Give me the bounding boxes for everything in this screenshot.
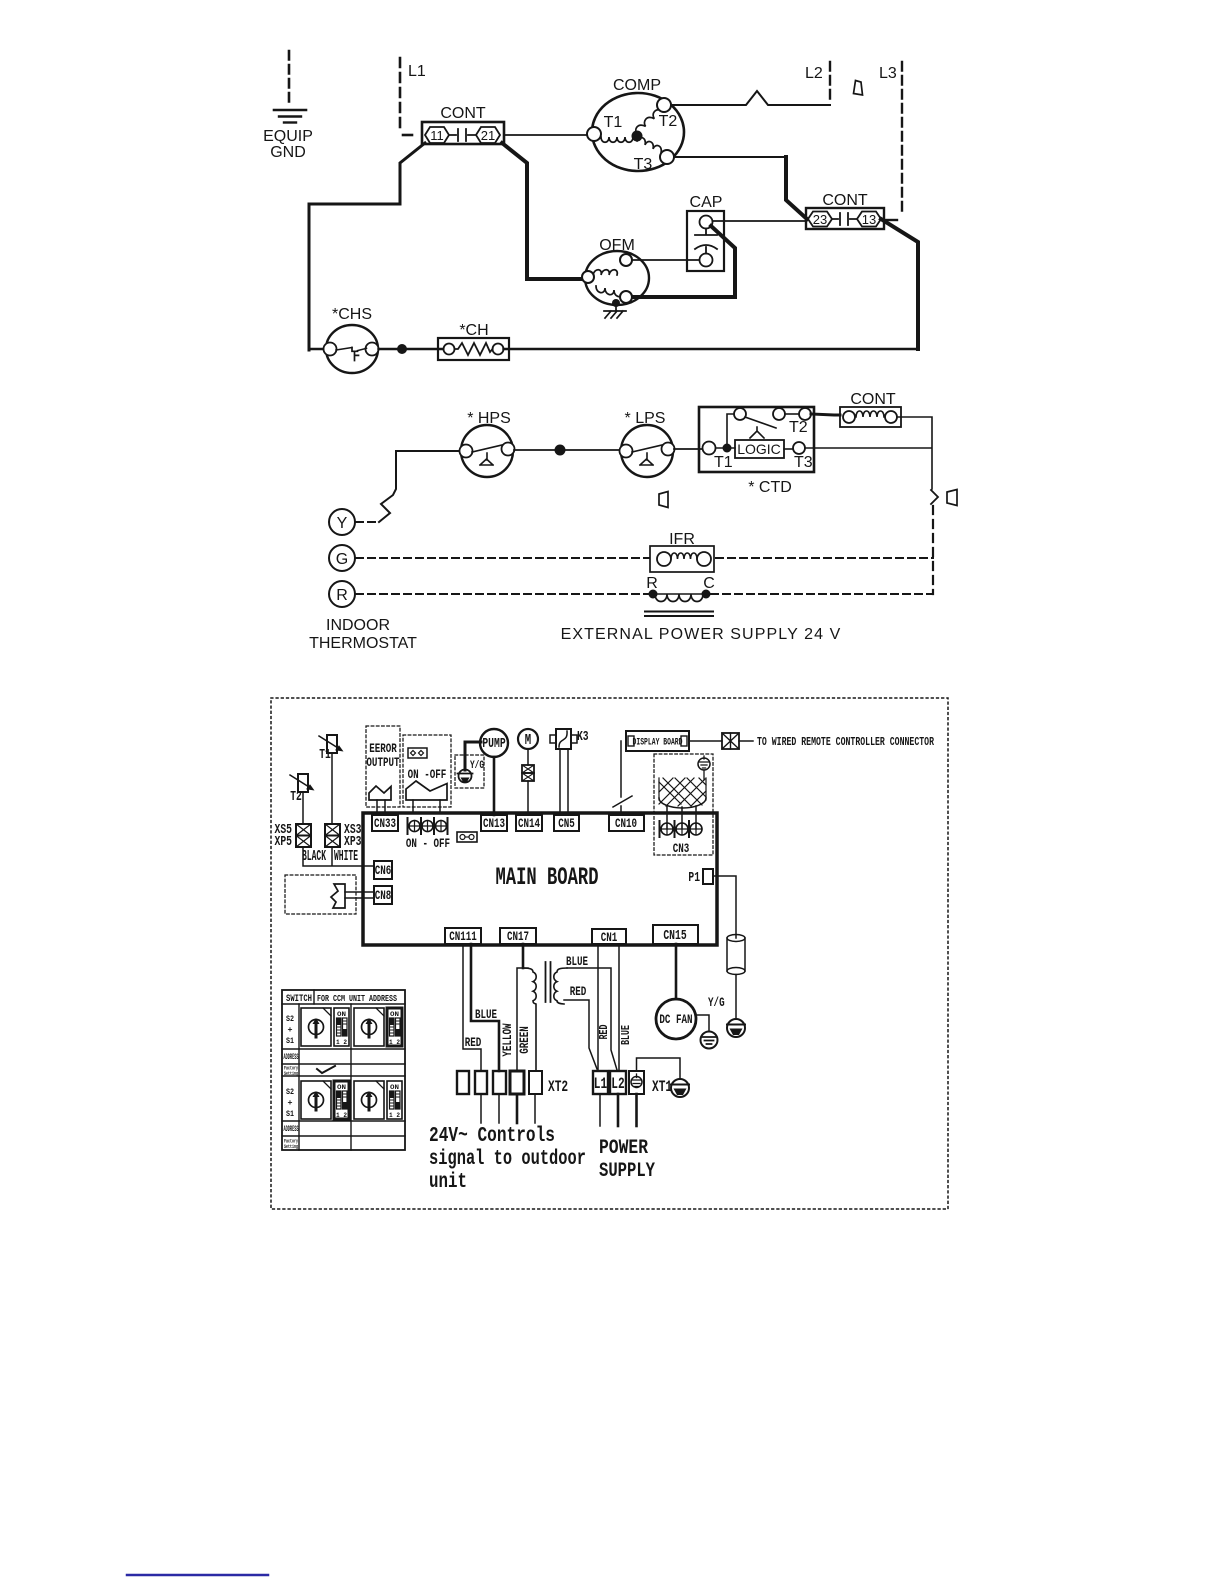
CTD switch blade	[745, 417, 776, 428]
svg-text:13: 13	[862, 212, 876, 227]
svg-text:T2: T2	[789, 419, 808, 436]
svg-text:BLUE: BLUE	[475, 1007, 497, 1022]
wire 13 down to heater row	[881, 219, 918, 349]
wire to remote connector	[689, 740, 722, 742]
connector pair M	[522, 765, 534, 773]
rotary+dip switch B2	[354, 1081, 384, 1119]
svg-text:K3: K3	[577, 730, 589, 745]
switch CHS	[324, 306, 379, 373]
secondary blue lead	[567, 968, 617, 1070]
svg-text:Y/G: Y/G	[708, 995, 725, 1010]
logic box	[735, 440, 784, 458]
wire Y break and up to HPS	[379, 451, 461, 522]
coil T1	[601, 137, 633, 142]
svg-text:T1: T1	[319, 748, 331, 763]
junction dot	[612, 299, 620, 307]
wire CN111 red	[463, 944, 481, 1071]
svg-text:INDOOR: INDOOR	[326, 617, 390, 634]
svg-text:ON -OFF: ON -OFF	[408, 767, 447, 782]
coil lower	[596, 286, 623, 297]
connector CN1	[592, 929, 626, 944]
svg-text:S1: S1	[286, 1110, 294, 1119]
svg-text:XT1: XT1	[652, 1078, 672, 1096]
svg-text:signal to outdoor: signal to outdoor	[429, 1148, 586, 1171]
coil upper	[593, 270, 617, 275]
svg-text:CN1: CN1	[601, 930, 618, 945]
svg-text:ADDRESS: ADDRESS	[284, 1125, 299, 1134]
connector CN8	[374, 886, 392, 904]
svg-text:CONT: CONT	[440, 105, 486, 122]
connector CN13	[481, 815, 507, 831]
svg-text:T3: T3	[634, 156, 653, 173]
svg-text:RED: RED	[570, 984, 587, 999]
float switch shape	[331, 884, 345, 908]
secondary red lead	[564, 1000, 597, 1069]
wire CN10 to display board with switch	[613, 741, 632, 815]
wires below XT2	[480, 1094, 482, 1123]
contactor CONT 23-13	[786, 157, 918, 349]
svg-text:CN10: CN10	[615, 816, 637, 831]
svg-text:L1: L1	[408, 63, 426, 80]
rotary+dip switch A2	[301, 1081, 331, 1119]
svg-text:T3: T3	[794, 454, 813, 471]
fan DC FAN	[675, 944, 678, 999]
svg-text:21: 21	[481, 128, 495, 143]
svg-text:EXTERNAL POWER SUPPLY 24 V: EXTERNAL POWER SUPPLY 24 V	[561, 626, 842, 643]
transformer primary green lead	[517, 968, 528, 1071]
wire HPS to LPS	[514, 449, 620, 451]
fan coil crosshatch	[659, 778, 706, 806]
svg-text:COMP: COMP	[613, 77, 661, 94]
node R	[329, 581, 355, 607]
svg-text:*CH: *CH	[459, 322, 488, 339]
capacitor CAP	[633, 194, 806, 297]
terminal XT2	[457, 1071, 469, 1094]
svg-text:CN15: CN15	[663, 929, 686, 944]
ferrite cylinder	[727, 938, 745, 971]
svg-text:L1: L1	[594, 1075, 607, 1093]
main board outline	[363, 813, 717, 945]
dashed box ON-OFF	[403, 735, 451, 807]
svg-text:FOR CCM UNIT ADDRESS: FOR CCM UNIT ADDRESS	[317, 994, 397, 1004]
svg-text:1 2: 1 2	[336, 1039, 347, 1046]
CN3 jacks	[660, 821, 690, 837]
wire CONT21 down to OFM	[502, 143, 584, 279]
compressor COMP	[587, 77, 830, 173]
resistor CH	[309, 322, 916, 360]
svg-text:T1: T1	[604, 114, 623, 131]
ground EQUIP GND	[263, 51, 313, 161]
fan wires	[667, 806, 696, 829]
outer dashed enclosure	[271, 698, 948, 1209]
connector CN6	[374, 861, 392, 879]
svg-text:T2: T2	[659, 113, 678, 130]
terminal 13	[857, 212, 881, 227]
dashed return wire	[932, 506, 934, 594]
BOTTOM BLOCK	[271, 698, 948, 1209]
svg-text:* CTD: * CTD	[748, 479, 792, 496]
factory setting checkmark	[317, 1066, 335, 1073]
terminal left	[582, 271, 594, 283]
svg-text:THERMOSTAT: THERMOSTAT	[309, 635, 417, 652]
coil T2	[636, 110, 663, 134]
svg-text:ON: ON	[337, 1084, 346, 1091]
svg-text:CN33: CN33	[374, 816, 396, 831]
wire OFM top to CAP bottom	[632, 259, 699, 261]
connector CN15	[653, 925, 698, 944]
svg-text:M: M	[525, 731, 531, 749]
motor OFM	[582, 237, 699, 318]
sensor T2	[298, 774, 308, 792]
svg-text:EEROR: EEROR	[369, 741, 397, 756]
node G	[329, 545, 355, 571]
wires to CN8	[345, 892, 374, 898]
svg-text:ON - OFF: ON - OFF	[406, 836, 450, 851]
svg-text:ON: ON	[337, 1011, 346, 1018]
terminal 23	[808, 212, 832, 227]
svg-text:BLUE: BLUE	[566, 954, 588, 969]
svg-text:XP3: XP3	[344, 835, 362, 850]
svg-text:CN17: CN17	[507, 929, 529, 944]
svg-text:ADDRESS: ADDRESS	[284, 1053, 299, 1062]
svg-text:RED: RED	[465, 1035, 482, 1050]
svg-text:*CHS: *CHS	[332, 306, 372, 323]
switch table	[282, 990, 405, 1150]
rotary+dip switch B1	[354, 1008, 384, 1046]
svg-text:BLACK: BLACK	[302, 849, 326, 865]
wire T3 down to 23	[786, 157, 807, 219]
wire LPS to CTD	[674, 448, 703, 450]
svg-text:G: G	[336, 551, 348, 568]
wire CAP top to OFM bottom (thick)	[633, 226, 735, 297]
footer line	[127, 1574, 268, 1577]
svg-text:CN14: CN14	[518, 816, 540, 831]
node Y	[329, 509, 355, 535]
wire CAP top to CONT 23	[713, 220, 807, 222]
svg-text:CONT: CONT	[822, 192, 868, 209]
wire T3 right	[674, 156, 785, 158]
svg-text:S2: S2	[286, 1015, 294, 1024]
node L2	[805, 62, 830, 104]
svg-text:SUPPLY: SUPPLY	[599, 1160, 655, 1183]
wire Y dashed	[356, 521, 379, 523]
transformer core	[546, 962, 551, 1002]
connector XS3 XP3	[325, 824, 340, 836]
connector CN17	[500, 928, 536, 944]
svg-text:P1: P1	[688, 871, 700, 886]
earth filled type	[727, 1019, 745, 1037]
svg-text:RED: RED	[597, 1025, 611, 1040]
svg-text:GND: GND	[270, 144, 306, 161]
motor M	[518, 729, 538, 749]
svg-text:CN5: CN5	[558, 816, 575, 831]
terminal bottom	[620, 291, 632, 303]
wire CN17 to transformer	[522, 944, 525, 968]
earth in CN3 box	[698, 758, 710, 770]
svg-text:+: +	[288, 1026, 293, 1035]
coil T3	[637, 138, 661, 153]
rotary+dip switch A1	[301, 1008, 331, 1046]
terminal T1	[587, 127, 601, 141]
display board	[626, 731, 689, 751]
terminal top	[620, 254, 632, 266]
node L3	[879, 62, 902, 220]
wire coil right down	[805, 417, 932, 489]
svg-text:T2: T2	[290, 790, 302, 805]
wire R dashed	[356, 593, 648, 595]
wires below XT1	[599, 1094, 601, 1126]
motor PUMP	[480, 729, 508, 757]
svg-text:11: 11	[430, 128, 444, 143]
svg-text:1 2: 1 2	[389, 1112, 400, 1119]
svg-text:PUMP: PUMP	[482, 737, 505, 752]
svg-text:R: R	[646, 575, 658, 592]
contact between 11 and 21	[449, 129, 476, 141]
svg-text:23: 23	[813, 212, 827, 227]
svg-text:CN8: CN8	[375, 888, 392, 903]
wire T1 to XS3	[331, 753, 333, 824]
wires CN1	[597, 944, 599, 1071]
svg-text:1 2: 1 2	[389, 1039, 400, 1046]
earth bars type	[701, 1032, 718, 1049]
svg-text:Setting: Setting	[284, 1070, 298, 1077]
svg-text:MAIN BOARD: MAIN BOARD	[496, 863, 599, 892]
jack symbols ON-OFF	[408, 818, 448, 834]
svg-text:L3: L3	[879, 65, 897, 82]
transformer primary coil	[523, 968, 536, 1071]
svg-text:DISPLAY BOARD: DISPLAY BOARD	[633, 737, 683, 749]
svg-text:TO WIRED REMOTE CONTROLLER CON: TO WIRED REMOTE CONTROLLER CONNECTOR	[757, 736, 934, 749]
svg-text:CONT: CONT	[850, 391, 896, 408]
svg-text:C: C	[703, 575, 715, 592]
svg-text:BLUE: BLUE	[619, 1025, 633, 1045]
connector CN111	[445, 928, 481, 944]
terminal 11	[425, 127, 449, 143]
wire PUMP to earth	[465, 742, 481, 770]
transformer secondary	[554, 968, 567, 1004]
svg-text:T1: T1	[714, 454, 733, 471]
svg-text:L2: L2	[611, 1075, 624, 1093]
bottom connectors row	[429, 925, 725, 1194]
sensor T1	[327, 735, 337, 753]
ground below OFM	[604, 303, 626, 318]
svg-text:YELLOW: YELLOW	[500, 1023, 515, 1056]
wire CONT11 down-left branch	[309, 143, 425, 350]
svg-text:CN6: CN6	[375, 863, 392, 878]
MIDDLE	[309, 391, 957, 652]
wires sensors to CN6	[303, 847, 374, 866]
svg-text:+: +	[288, 1099, 293, 1108]
connector XS5 XP5	[296, 824, 311, 836]
svg-text:S2: S2	[286, 1088, 294, 1097]
terminal T2	[657, 98, 671, 112]
svg-text:POWER: POWER	[599, 1137, 648, 1160]
terminal XT1 earth	[629, 1071, 644, 1094]
svg-text:R: R	[336, 587, 348, 604]
terminal XT1 L2	[610, 1071, 626, 1094]
relay K3	[556, 729, 571, 749]
wire heater row	[309, 348, 323, 350]
svg-text:XP5: XP5	[275, 835, 293, 850]
svg-text:ON: ON	[390, 1011, 399, 1018]
connector CN5	[554, 815, 579, 831]
contact between 23 and 13	[832, 213, 857, 225]
svg-text:Setting: Setting	[284, 1143, 298, 1150]
wire 21 to COMP T1	[504, 134, 587, 136]
terminal XT1 L1	[593, 1071, 608, 1094]
svg-text:CN111: CN111	[449, 929, 477, 944]
contactor CONT 11-21	[309, 105, 587, 350]
svg-text:Y/G: Y/G	[470, 760, 484, 772]
wire T2 to coil	[811, 414, 840, 415]
svg-text:ON: ON	[390, 1084, 399, 1091]
node L1	[400, 58, 426, 135]
wire G dashed	[356, 557, 649, 559]
chevron break	[931, 490, 938, 504]
dashed box EEROR OUTPUT	[366, 726, 400, 807]
svg-text:OUTPUT: OUTPUT	[366, 755, 399, 770]
connector CN33	[372, 815, 398, 831]
svg-text:CN13: CN13	[483, 816, 505, 831]
svg-text:1 2: 1 2	[336, 1112, 347, 1119]
svg-text:EQUIP: EQUIP	[263, 128, 313, 145]
dashed box CN3 fan	[654, 754, 713, 855]
connector CN10	[609, 815, 644, 831]
svg-text:Y: Y	[337, 515, 348, 532]
svg-text:CN3: CN3	[673, 841, 690, 856]
svg-text:XT2: XT2	[548, 1078, 568, 1096]
svg-text:GREEN: GREEN	[517, 1026, 532, 1054]
splice marker mid	[659, 492, 668, 508]
dashed option box left	[285, 875, 356, 914]
svg-text:CAP: CAP	[690, 194, 723, 211]
wire T2 to L2 with crossover bump	[671, 91, 830, 105]
earth wire XT1	[637, 1058, 681, 1079]
junction center	[632, 131, 643, 142]
svg-text:S1: S1	[286, 1037, 294, 1046]
wire T2 to XS5	[302, 792, 304, 824]
timer CTD	[699, 407, 814, 472]
svg-text:L2: L2	[805, 65, 823, 82]
svg-text:WHITE: WHITE	[334, 849, 358, 865]
svg-text:unit: unit	[429, 1171, 467, 1194]
svg-text:24V~ Controls: 24V~ Controls	[429, 1125, 555, 1148]
terminal 21	[476, 127, 500, 143]
terminal T3	[660, 150, 674, 164]
svg-text:DC FAN: DC FAN	[659, 1012, 692, 1027]
splice marker	[947, 490, 957, 506]
wire CN111 blue	[471, 944, 499, 1071]
splice marker near L3	[854, 81, 863, 96]
svg-text:LOGIC: LOGIC	[737, 441, 781, 457]
jumper plug	[457, 832, 477, 842]
dashed box Y/G earth	[455, 755, 484, 788]
connector CN14	[516, 815, 542, 831]
